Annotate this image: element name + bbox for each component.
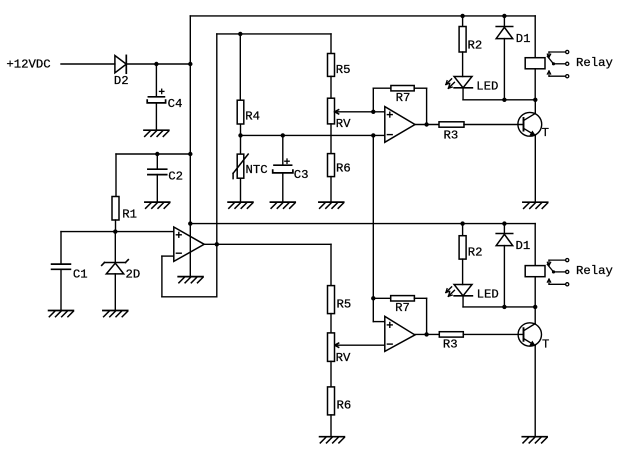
svg-text:RV: RV — [336, 351, 351, 365]
svg-text:R4: R4 — [245, 110, 260, 124]
svg-text:D1: D1 — [516, 32, 531, 46]
svg-text:R2: R2 — [468, 38, 483, 52]
svg-text:R7: R7 — [396, 91, 411, 105]
svg-text:NTC: NTC — [246, 163, 268, 177]
svg-text:R6: R6 — [337, 399, 352, 413]
svg-text:D1: D1 — [516, 239, 531, 253]
svg-text:C3: C3 — [294, 168, 309, 182]
svg-text:+12VDC: +12VDC — [6, 58, 50, 72]
svg-text:C1: C1 — [73, 268, 88, 282]
svg-text:T: T — [542, 338, 549, 352]
svg-text:R5: R5 — [336, 63, 351, 77]
svg-text:R5: R5 — [337, 297, 352, 311]
svg-text:LED: LED — [477, 287, 499, 301]
svg-text:T: T — [542, 126, 549, 140]
svg-text:2D: 2D — [126, 268, 141, 282]
svg-text:Relay: Relay — [576, 56, 613, 70]
svg-text:R6: R6 — [336, 162, 351, 176]
svg-text:R1: R1 — [122, 207, 137, 221]
svg-text:Relay: Relay — [576, 264, 613, 278]
svg-text:R2: R2 — [468, 245, 483, 259]
svg-text:C2: C2 — [168, 170, 183, 184]
svg-text:D2: D2 — [114, 74, 129, 88]
svg-text:C4: C4 — [168, 97, 183, 111]
svg-text:R3: R3 — [443, 337, 458, 351]
svg-text:R3: R3 — [444, 129, 459, 143]
svg-text:R7: R7 — [395, 301, 410, 315]
svg-text:LED: LED — [476, 79, 498, 93]
svg-text:RV: RV — [336, 117, 351, 131]
